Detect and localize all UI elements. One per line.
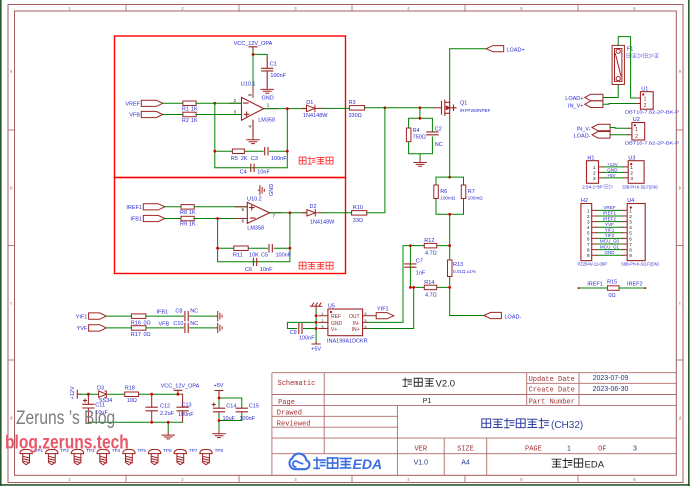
svg-text:C14: C14: [226, 404, 236, 410]
IC U5 INA199A1DCKR: [328, 309, 363, 336]
op-amp U10.2 LM358: [235, 202, 280, 223]
svg-text:6: 6: [587, 236, 590, 241]
svg-text:Zeruns ’s Blog: Zeruns ’s Blog: [16, 407, 115, 429]
port LOAD-: [484, 312, 501, 318]
resistor R7 100mΩ (vertical): [461, 185, 466, 199]
svg-text:EDA: EDA: [353, 456, 383, 472]
svg-text:C13: C13: [182, 402, 192, 408]
wire gate node to R4/C2: [419, 108, 421, 119]
svg-text:3: 3: [593, 176, 596, 181]
svg-text:R8: R8: [180, 210, 187, 216]
earth ground above U5: [310, 303, 321, 309]
svg-text:TP5: TP5: [138, 448, 147, 453]
svg-text:3: 3: [629, 220, 632, 225]
svg-text:R6: R6: [440, 189, 447, 195]
svg-text:3: 3: [633, 446, 637, 453]
svg-text:1: 1: [630, 165, 633, 170]
svg-text:Update Date: Update Date: [529, 376, 575, 384]
svg-text:PZ254V-11-09P: PZ254V-11-09P: [578, 262, 608, 267]
svg-text:LOAD-: LOAD-: [505, 314, 522, 320]
op-amp U10.1 LM358: [230, 87, 277, 137]
wire Q1 drain to LOAD+: [450, 49, 487, 99]
svg-text:IREF1: IREF1: [603, 211, 616, 216]
svg-text:10Ω: 10Ω: [127, 398, 137, 404]
svg-text:0Ω: 0Ω: [144, 332, 151, 338]
junction output node 2: [289, 211, 292, 214]
svg-text:1: 1: [629, 208, 632, 213]
sense bridge wires: [368, 246, 450, 329]
diode D2 1N4148W: [302, 212, 307, 214]
svg-text:INA199A1DCKR: INA199A1DCKR: [327, 339, 368, 345]
svg-text:100nF: 100nF: [271, 156, 287, 162]
svg-text:1N4148W: 1N4148W: [310, 219, 335, 225]
port LOAD- (to U2): [592, 132, 610, 139]
svg-text:VCC_12V_OPA: VCC_12V_OPA: [161, 383, 200, 389]
project name 智能电子负载 (CH32): [482, 419, 549, 428]
resistor R11 10K: [234, 246, 248, 251]
connector U1 DBT10-7.62-2P-BK-P: [640, 92, 653, 110]
wire R10 up to gate node: [367, 108, 385, 213]
power flag +5V (bottom right group): [215, 391, 223, 399]
ground flag (rotated) row B: [216, 323, 222, 332]
power flag +5V (below U5, pointing down): [312, 343, 320, 345]
wire to LOAD- port: [450, 315, 484, 317]
svg-text:V+: V+: [331, 327, 337, 333]
svg-text:DBT10-7.62-2P-BK-P: DBT10-7.62-2P-BK-P: [625, 110, 679, 115]
port IN_V+: [585, 101, 603, 108]
title block: [272, 373, 676, 476]
wires R6/R7 parallel block: [436, 177, 464, 246]
svg-text:2023-06-30: 2023-06-30: [593, 386, 629, 393]
svg-text:C4: C4: [240, 169, 247, 175]
test point TP7: [174, 449, 186, 464]
svg-text:C3: C3: [251, 156, 258, 162]
test point TP6: [148, 449, 160, 464]
power flag VCC_12V_OPA (bottom): [174, 390, 182, 394]
svg-text:1: 1: [593, 165, 596, 170]
svg-text:GND: GND: [269, 184, 275, 196]
svg-text:3: 3: [587, 220, 590, 225]
wire F1 top over to U1 pin1: [618, 37, 637, 98]
port IREF1: [143, 204, 165, 210]
junction VCC tap: [177, 393, 180, 396]
U5 pin leads: [319, 316, 376, 329]
junction at VCC node: [252, 53, 255, 56]
svg-text:U4: U4: [627, 198, 634, 204]
svg-text:S3B-PH-K-S(LF)(SN): S3B-PH-K-S(LF)(SN): [622, 184, 658, 189]
svg-text:0Ω: 0Ω: [609, 293, 616, 299]
wire D1 to R3: [322, 107, 349, 109]
resistor R6 100mΩ (vertical): [434, 185, 439, 199]
svg-text:TP7: TP7: [189, 448, 198, 453]
resistor R14 4.7Ω: [424, 285, 436, 290]
output wire U10.2 to D2: [270, 212, 307, 214]
wire VREF to R1: [163, 102, 183, 104]
ground at U10.1 pin4: [247, 137, 260, 144]
capacitor C3 100nF: [265, 148, 268, 155]
wires H1 to U3 (+12V / GND / +5V): [603, 167, 624, 178]
svg-text:IREF1: IREF1: [587, 282, 603, 288]
svg-text:5: 5: [587, 231, 590, 236]
svg-text:10nF: 10nF: [257, 169, 270, 175]
junction C11 tap: [87, 393, 90, 396]
power flag GND (rotated, above U10.2): [259, 186, 265, 195]
resistor R1 1K: [183, 102, 196, 104]
wire R2 to U10.1 pin3: [196, 114, 241, 116]
capacitor C15 100nF: [236, 408, 247, 412]
wire IN_V- to U2 pin1: [610, 127, 628, 130]
capacitor C5 100nF: [269, 245, 272, 252]
svg-text:3: 3: [630, 176, 633, 181]
wire VCC to U10.1 pin8 and C1: [253, 50, 267, 87]
svg-text:1nF: 1nF: [416, 270, 426, 276]
junction gate row / R4 branch: [419, 106, 422, 109]
diode D3 SS34: [99, 391, 107, 397]
junctions U5 left pins: [315, 314, 318, 317]
svg-text:YIF1: YIF1: [377, 306, 389, 312]
svg-text:C10: C10: [173, 321, 183, 327]
svg-text:IFB1: IFB1: [130, 217, 142, 223]
svg-text:33Ω: 33Ω: [353, 218, 363, 224]
wire R15 to IREF2: [619, 287, 645, 289]
capacitor C8 NC: [185, 312, 188, 321]
svg-text:S9B-PH-K-S(LF)(SN): S9B-PH-K-S(LF)(SN): [621, 262, 659, 267]
svg-text:6: 6: [629, 236, 632, 241]
svg-text:D2: D2: [310, 204, 317, 210]
svg-text:+5V: +5V: [214, 383, 224, 389]
port LOAD+: [486, 46, 503, 52]
svg-text:4.7Ω: 4.7Ω: [425, 251, 437, 257]
junction C12 tap: [150, 393, 153, 396]
wire R9 to U10.2 pin6: [194, 218, 247, 220]
label 恒流控制: [299, 262, 333, 269]
svg-text:GND: GND: [604, 250, 615, 255]
wire R16 to C8: [146, 315, 184, 317]
svg-text:8: 8: [248, 93, 253, 96]
wire LOAD- to U2 pin2: [610, 134, 628, 136]
svg-text:4: 4: [248, 125, 253, 128]
svg-text:VREF: VREF: [125, 102, 140, 108]
svg-text:R3: R3: [349, 100, 356, 106]
svg-text:6: 6: [242, 219, 245, 224]
junctions +5V node: [218, 397, 221, 400]
svg-text:7: 7: [629, 242, 632, 247]
svg-text:IFB1: IFB1: [157, 310, 169, 316]
svg-text:IREF2: IREF2: [603, 216, 616, 221]
wire +12V rail: [81, 393, 183, 395]
wire YVF to R17: [106, 327, 131, 329]
wire end markers R15 net: [578, 287, 647, 289]
port VFB: [141, 111, 163, 117]
svg-text:LM358: LM358: [247, 226, 264, 232]
svg-text:R5: R5: [231, 156, 238, 162]
port IN_V-: [592, 124, 610, 131]
svg-text:R13: R13: [453, 262, 463, 268]
svg-text:2023-07-09: 2023-07-09: [593, 375, 629, 382]
svg-text:C5: C5: [261, 253, 268, 259]
svg-text:R18: R18: [125, 385, 135, 391]
svg-text:YIF1: YIF1: [76, 314, 88, 320]
svg-text:V2.0: V2.0: [436, 379, 456, 390]
svg-text:4: 4: [629, 225, 632, 230]
test point TP8: [200, 449, 212, 464]
svg-text:+5V: +5V: [311, 347, 321, 353]
svg-text:1: 1: [567, 446, 571, 453]
ground below C1: [261, 86, 274, 93]
wires R4/C2 parallel block: [409, 118, 433, 159]
connector U3 S3B-PH-K-S(LF)(SN): [628, 161, 644, 184]
svg-text:PAGE: PAGE: [525, 446, 542, 454]
svg-text:R10: R10: [353, 205, 363, 211]
svg-text:DBT10-7.62-2P-BK-P: DBT10-7.62-2P-BK-P: [625, 140, 679, 145]
port IFB1: [143, 215, 165, 221]
svg-text:5: 5: [629, 231, 632, 236]
svg-text:C2: C2: [435, 127, 442, 133]
svg-text:IN_V-: IN_V-: [577, 126, 591, 132]
ground flag (rotated) row A: [216, 312, 222, 321]
ground symbol (+5V group): [213, 431, 226, 438]
junction gate row / R10 branch: [384, 106, 387, 109]
svg-text:YIF1: YIF1: [605, 228, 615, 233]
svg-text:2: 2: [593, 171, 596, 176]
junction R6R7 top: [448, 176, 451, 179]
svg-text:330Ω: 330Ω: [349, 113, 362, 119]
svg-text:2: 2: [234, 98, 237, 103]
svg-text:Reviewed: Reviewed: [277, 421, 311, 429]
port YIF1 (input, bottom left): [89, 313, 107, 319]
fuse F1 保险丝座带盖: [612, 45, 624, 84]
svg-text:YVF: YVF: [605, 222, 614, 227]
resistor R8 1K: [181, 205, 194, 210]
svg-text:C9: C9: [290, 330, 297, 336]
wire VFB to R2: [163, 114, 183, 116]
wire F1 bottom to LOAD+: [603, 85, 618, 98]
svg-text:2: 2: [587, 214, 590, 219]
wire Q1 source down to R6/R7: [449, 113, 451, 117]
svg-text:NC: NC: [435, 142, 443, 148]
svg-text:100nF: 100nF: [276, 253, 292, 259]
svg-text:OUT: OUT: [349, 314, 360, 320]
svg-text:10uF: 10uF: [223, 416, 236, 422]
capacitor C10 NC: [185, 323, 188, 332]
svg-text:V1.0: V1.0: [414, 459, 429, 466]
svg-text:4.7Ω: 4.7Ω: [425, 292, 437, 298]
wires C14/C15 block: [219, 398, 242, 431]
svg-text:Schematic: Schematic: [278, 380, 316, 388]
port YIF1 (at U5 OUT): [376, 313, 394, 319]
svg-text:VREF: VREF: [603, 205, 615, 210]
svg-text:IREF1: IREF1: [126, 205, 142, 211]
svg-text:LOAD+: LOAD+: [507, 48, 525, 54]
capacitor C13 100nF: [182, 394, 184, 422]
svg-text:C15: C15: [249, 404, 259, 410]
svg-text:5: 5: [242, 207, 245, 212]
junctions sense bridge: [409, 244, 412, 247]
wire IREF1 to R8: [165, 206, 181, 208]
svg-text:REF: REF: [331, 314, 341, 320]
capacitor C9 100nF: [287, 322, 305, 328]
svg-text:U1: U1: [641, 86, 648, 92]
svg-text:C1: C1: [270, 62, 277, 68]
svg-text:0.01Ω ±1%: 0.01Ω ±1%: [453, 269, 476, 274]
feedback loop wires (output to pin2): [215, 103, 307, 168]
svg-text:C6: C6: [245, 267, 252, 273]
svg-text:blog.zeruns.tech: blog.zeruns.tech: [5, 431, 129, 453]
connector U2 DBT10-7.62-2P-BK-P: [632, 123, 645, 141]
svg-text:(CH32): (CH32): [551, 420, 583, 431]
constant-current control box 恒流控制: [115, 178, 346, 274]
capacitor C2 NC (vertical): [427, 132, 438, 135]
constant-voltage control box 恒压控制: [115, 36, 346, 178]
junction output node: [286, 107, 289, 110]
wire R1 to U10.1 pin2: [196, 102, 241, 104]
resistor R18 10Ω: [125, 392, 139, 397]
svg-text:LOAD+: LOAD+: [565, 96, 583, 102]
capacitor C14 10uF (polarized): [212, 403, 224, 412]
svg-text:U10.2: U10.2: [247, 197, 262, 203]
wire IN_V+ to U1 pin2: [603, 103, 637, 106]
svg-text:100nF: 100nF: [240, 416, 256, 422]
junction R6R7 bottom: [448, 213, 451, 216]
svg-text:100mΩ: 100mΩ: [440, 196, 455, 201]
svg-text:U2: U2: [633, 117, 640, 123]
junction R4 block top: [419, 117, 422, 120]
svg-text:10nF: 10nF: [260, 267, 273, 273]
wire R17 to C10: [146, 327, 184, 329]
svg-text:YVF: YVF: [77, 326, 88, 332]
svg-text:1K: 1K: [189, 210, 196, 216]
svg-text:GND: GND: [607, 167, 618, 172]
svg-text:2: 2: [644, 103, 647, 109]
port YVF: [89, 325, 107, 331]
company name 嘉立创EDA: [552, 459, 583, 468]
svg-text:1K: 1K: [189, 222, 196, 228]
watermark Zeruns's Blog: [5, 407, 129, 453]
wire IREF1 to R15: [579, 287, 608, 289]
resistor R10 33Ω: [352, 211, 367, 216]
svg-text:IN-: IN-: [353, 321, 360, 327]
svg-text:7: 7: [587, 242, 590, 247]
svg-text:TP6: TP6: [163, 448, 172, 453]
svg-text:R15: R15: [607, 280, 617, 286]
svg-text:1N4148W: 1N4148W: [303, 113, 328, 119]
svg-text:MCU_G1: MCU_G1: [600, 244, 620, 249]
svg-text:D1: D1: [306, 100, 313, 106]
svg-text:2K: 2K: [241, 156, 248, 162]
capacitor C1 100nF: [262, 58, 273, 87]
junction pin2 node: [213, 102, 216, 105]
svg-text:LM358: LM358: [258, 118, 275, 124]
svg-text:Create Date: Create Date: [529, 387, 575, 395]
svg-text:R4: R4: [413, 128, 420, 134]
svg-text:NC: NC: [190, 321, 198, 327]
wire C10 to gnd flag: [190, 327, 217, 329]
svg-text:U3: U3: [628, 155, 635, 161]
svg-text:VFB: VFB: [159, 321, 170, 327]
svg-text:P1: P1: [423, 398, 432, 405]
resistor R5 2K: [232, 149, 244, 154]
svg-text:9: 9: [587, 253, 590, 258]
capacitor C4 10nF: [251, 164, 254, 171]
wire C8 to gnd flag: [190, 315, 217, 317]
svg-text:LOAD-: LOAD-: [574, 134, 591, 140]
svg-text:R17: R17: [131, 332, 141, 338]
wire D2 to R10: [322, 212, 351, 214]
svg-text:+12V: +12V: [607, 162, 619, 167]
port VREF: [141, 100, 163, 106]
svg-text:MCU_G0: MCU_G0: [600, 239, 620, 244]
svg-text:YIF2: YIF2: [605, 233, 615, 238]
svg-text:1K: 1K: [191, 118, 198, 124]
svg-text:750Ω: 750Ω: [413, 134, 426, 140]
svg-text:IREF2: IREF2: [627, 282, 643, 288]
feedback loop wires (box2): [218, 213, 290, 262]
diode D1 1N4148W: [302, 107, 307, 109]
port LOAD+ (to U1): [585, 94, 603, 101]
test point TP5: [123, 449, 135, 464]
svg-text:2: 2: [630, 171, 633, 176]
sheet title 功率板V2.0: [403, 378, 434, 387]
svg-text:R7: R7: [468, 189, 475, 195]
power flag +12V (pointing left): [77, 390, 80, 398]
svg-text:+5V: +5V: [607, 173, 616, 178]
svg-text:2.54-1*3P: 2.54-1*3P: [582, 184, 602, 189]
svg-text:NC: NC: [190, 308, 198, 314]
svg-text:IRFP250NPBF: IRFP250NPBF: [460, 108, 491, 113]
svg-text:VER: VER: [414, 446, 427, 454]
resistor R17 0Ω: [131, 326, 146, 331]
svg-text:1: 1: [635, 127, 638, 133]
connector H1 2.54-1*3P排针: [587, 161, 599, 184]
svg-text:H2: H2: [581, 198, 588, 204]
wire R8 to U10.2 pin5: [194, 206, 247, 208]
svg-text:2: 2: [629, 214, 632, 219]
svg-text:GND: GND: [262, 95, 274, 101]
svg-text:Drawed: Drawed: [277, 410, 302, 418]
transistor Q1 IRFP250NPBF: [442, 100, 457, 115]
junctions ground rail: [150, 421, 153, 424]
svg-text:4: 4: [587, 225, 590, 230]
test point TP4: [97, 449, 109, 464]
wire R3 to Q1 gate: [365, 107, 435, 109]
resistor R15 0Ω: [607, 286, 619, 291]
U5 left supply wires: [305, 309, 316, 342]
test point TP1: [20, 449, 32, 464]
svg-text:OF: OF: [598, 446, 606, 454]
svg-text:3: 3: [234, 109, 237, 114]
svg-text:100nF: 100nF: [178, 412, 194, 418]
svg-text:R14: R14: [424, 280, 434, 286]
svg-text:+12V: +12V: [70, 386, 76, 399]
svg-text:R11: R11: [233, 253, 243, 259]
power flag VCC_12V_OPA (top of box1): [249, 47, 257, 50]
connector U4 S9B-PH-K-S(LF)(SN): [627, 204, 645, 261]
resistor R16 0Ω: [131, 314, 146, 319]
JLCEDA logo: [289, 454, 309, 470]
svg-text:Page: Page: [278, 399, 295, 407]
svg-text:VFB: VFB: [129, 113, 140, 119]
svg-text:Part Number: Part Number: [529, 399, 575, 407]
junction pin6 node: [216, 217, 219, 220]
svg-text:R12: R12: [424, 238, 434, 244]
svg-text:8: 8: [629, 248, 632, 253]
resistor R9 1K: [181, 216, 194, 221]
svg-text:EDA: EDA: [585, 460, 605, 471]
capacitor C6 10nF: [253, 258, 256, 265]
wire IFB1 to R9: [165, 218, 181, 220]
svg-text:10K: 10K: [249, 253, 259, 259]
svg-text:2: 2: [635, 134, 638, 140]
